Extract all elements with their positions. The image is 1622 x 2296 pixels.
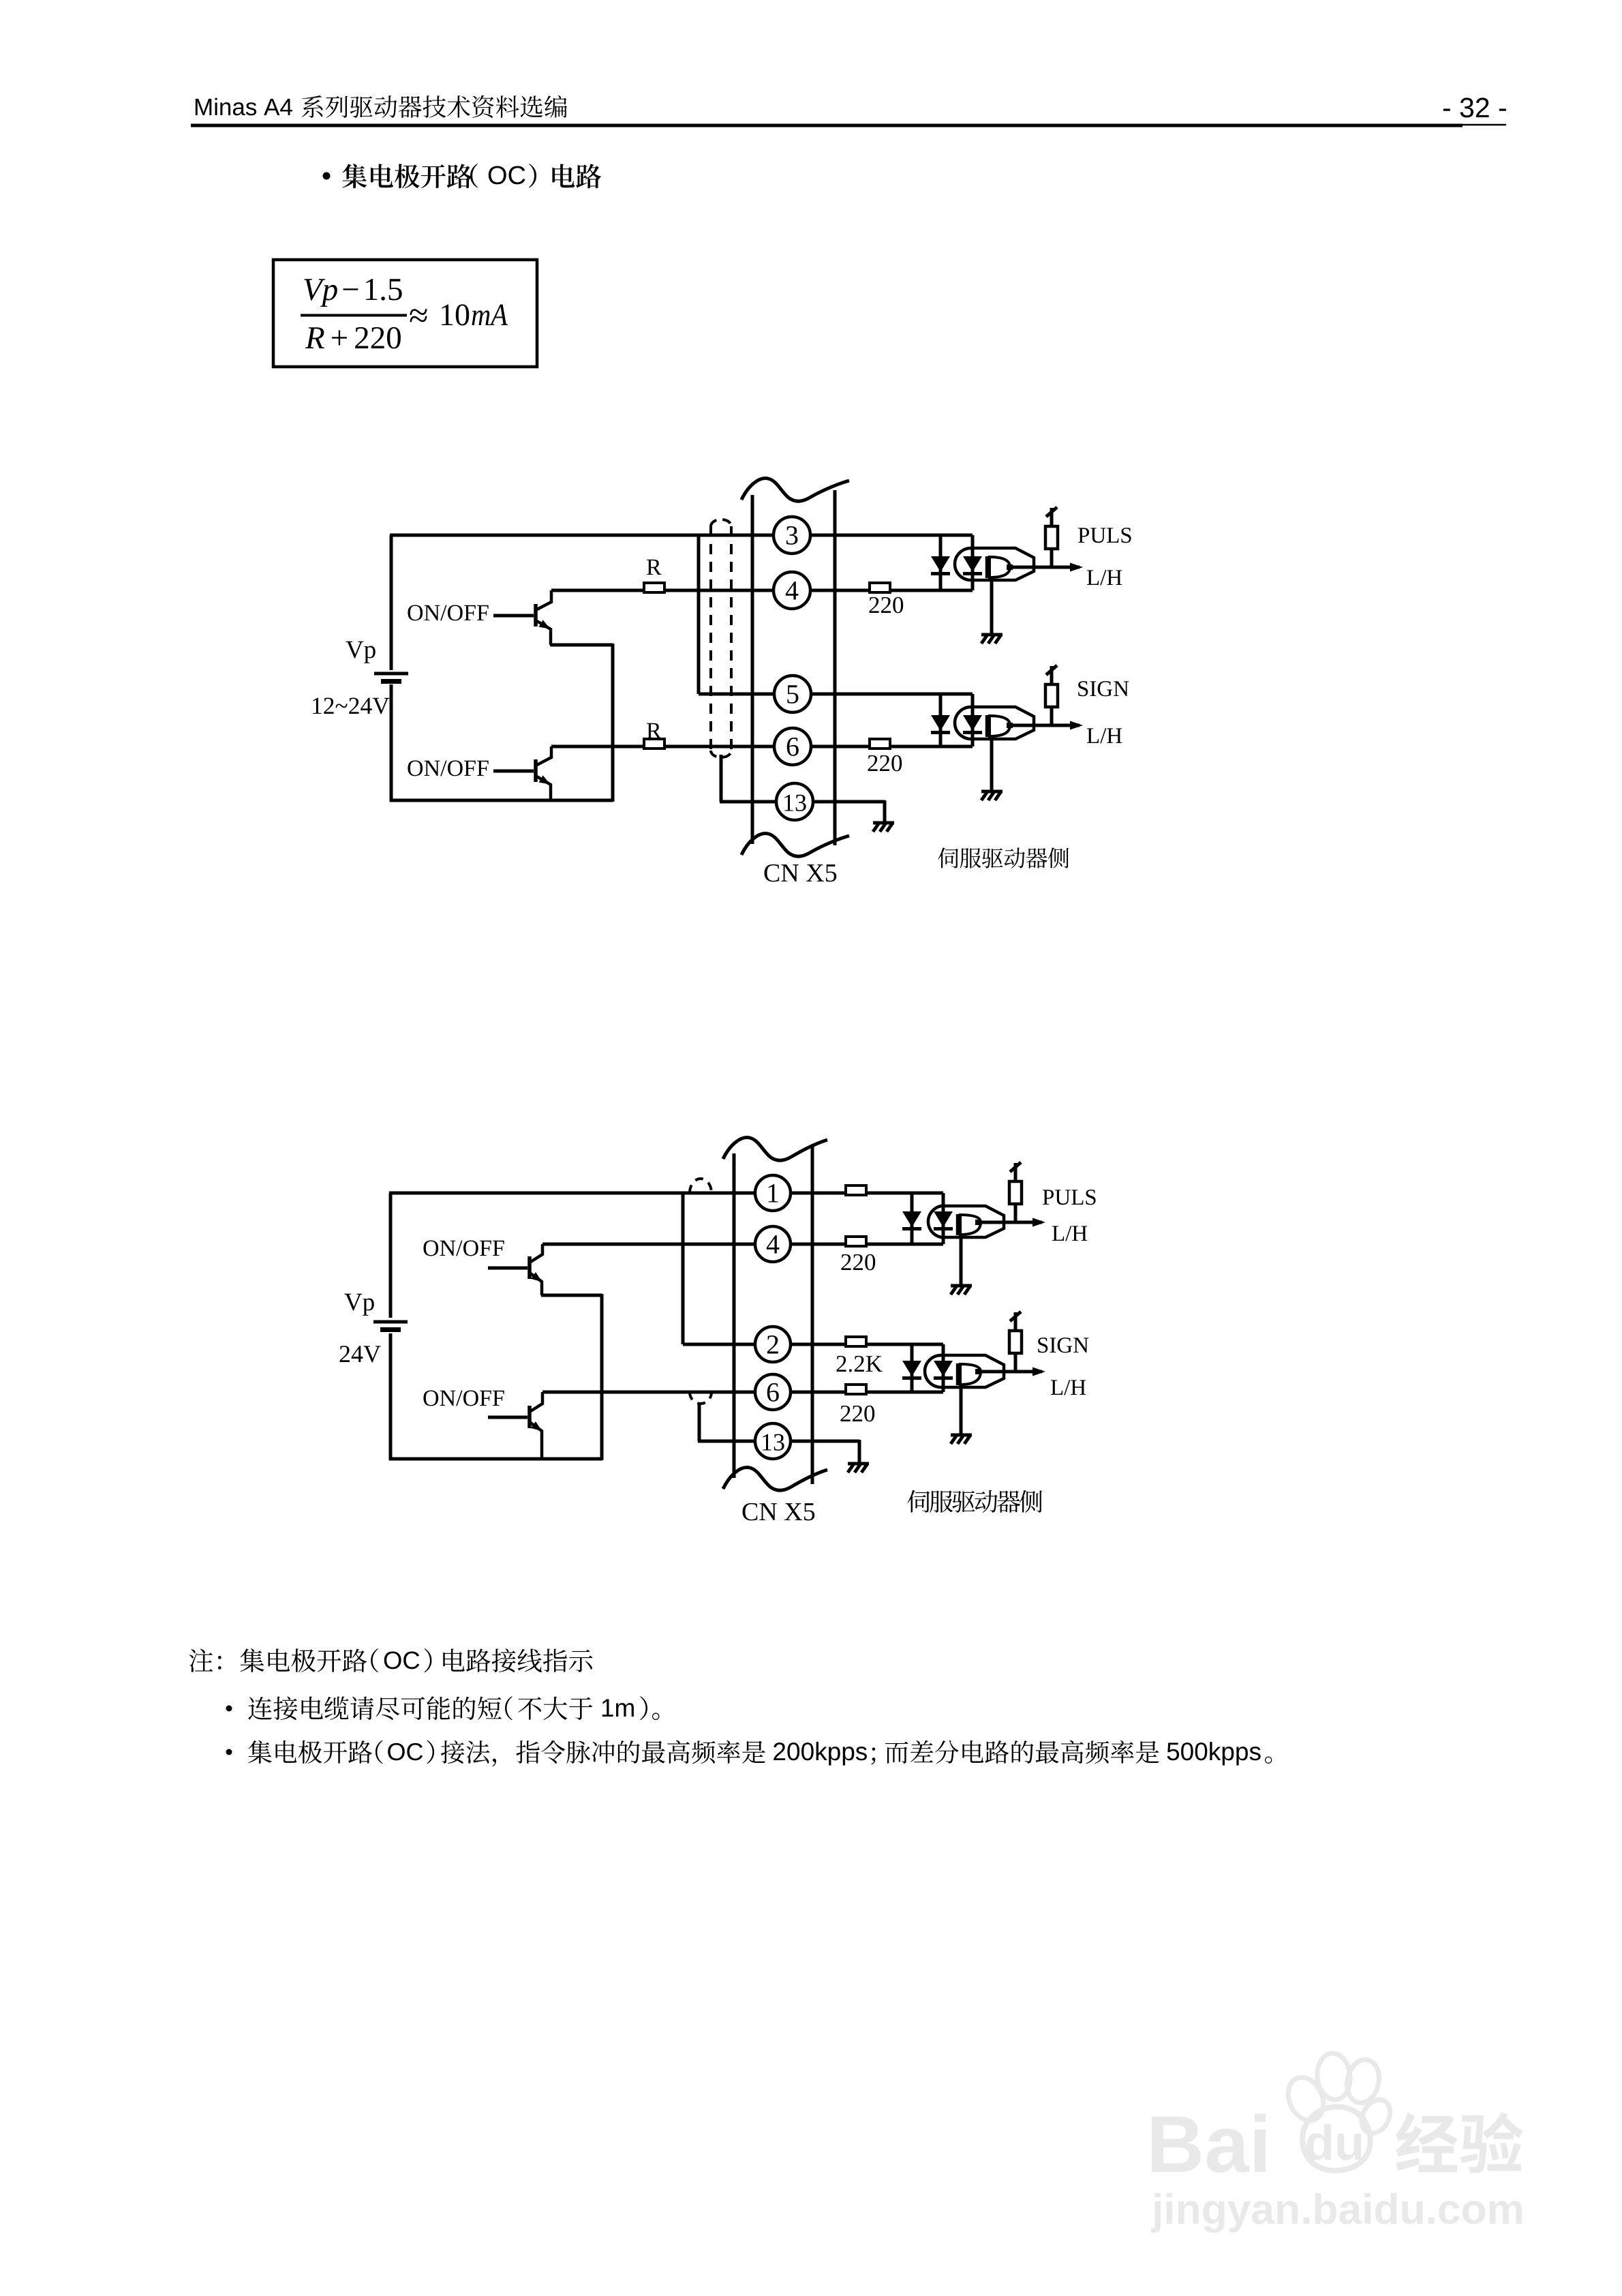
- formula box: [273, 260, 537, 367]
- note line3 OC: [388, 1743, 405, 1760]
- D2 pin 1: [755, 1175, 791, 1211]
- D2 label servo driver side: [907, 1490, 930, 1513]
- D1 label Vp: [346, 641, 363, 659]
- formula 10: [442, 305, 453, 325]
- D2 label L/H SIGN: [1051, 1380, 1062, 1395]
- note line1 cjk2: [443, 1648, 465, 1672]
- header rule: [191, 124, 1463, 127]
- D1 Q1 emitter run: [550, 644, 613, 647]
- D2 opto-coupler SIGN: [925, 1355, 1004, 1387]
- D2 opto LED SIGN: [942, 1344, 945, 1392]
- D1 label ON/OFF lower: [408, 760, 423, 776]
- D1 label R upper: [647, 560, 662, 575]
- D1 label L/H PULS: [1087, 570, 1099, 585]
- D2 base wire Q1: [488, 1267, 527, 1270]
- D2 battery Vp: [373, 1320, 408, 1324]
- D2 connector left edge: [733, 1153, 736, 1478]
- D1 emitter lead SIGN: [990, 737, 994, 791]
- D1 base wire Q2: [493, 770, 534, 773]
- page number underline: [1447, 124, 1506, 126]
- D1 label PULS: [1078, 528, 1089, 543]
- D1 resistor R lower: [644, 739, 664, 749]
- note line1 OC: [384, 1652, 401, 1670]
- section heading close paren: [529, 164, 536, 187]
- watermark jingyan cjk: [1396, 2113, 1458, 2172]
- note line3 200kpps: [774, 1742, 785, 1760]
- D2 pin 6: [755, 1374, 791, 1410]
- D1 label R lower: [647, 723, 662, 738]
- D2 pin13 ground: [848, 1462, 869, 1466]
- note line2 cjk1: [248, 1697, 272, 1720]
- D1 collector wire pin4: [551, 589, 973, 592]
- D1 transistor Q1: [534, 604, 538, 626]
- D2 collector wire pin6: [542, 1391, 943, 1394]
- D1 pull-up resistor PULS: [1050, 549, 1054, 567]
- note line2 bullet: [226, 1706, 232, 1712]
- D1 connector right edge: [833, 490, 837, 845]
- D1 resistor 220 SIGN: [870, 739, 890, 749]
- D1 pin 6: [774, 728, 811, 765]
- watermark Bai: [1152, 2117, 1201, 2172]
- D1 transistor Q2: [534, 759, 538, 782]
- D2 label SIGN: [1038, 1338, 1047, 1353]
- note line1 cjk1: [189, 1649, 213, 1672]
- note line3 semicolon: [871, 1748, 875, 1765]
- D1 wire pin5 to opto: [699, 693, 973, 696]
- D1 pin 13: [776, 783, 813, 820]
- D1 opto-coupler PULS: [955, 548, 1034, 580]
- note line3 period: [1265, 1757, 1272, 1764]
- D1 pin 4: [774, 572, 810, 609]
- D2 label ON/OFF lower: [423, 1390, 438, 1406]
- D2 shield drain wire: [698, 1402, 701, 1441]
- D1 shield cable capsule: [709, 526, 712, 751]
- formula fraction bar: [301, 314, 407, 317]
- D1 pin13 ground lead: [883, 800, 887, 821]
- D1 top rail wire pin3: [390, 534, 973, 537]
- D1 label 220 SIGN: [868, 755, 878, 771]
- section heading cjk2: [552, 164, 575, 187]
- D1 connector left edge: [751, 495, 754, 844]
- formula denominator 220: [355, 327, 368, 348]
- watermark du: [1306, 2124, 1331, 2160]
- D1 clamp diode SIGN: [939, 694, 943, 746]
- D2 clamp diode PULS: [911, 1193, 914, 1244]
- header title cjk: [302, 95, 323, 118]
- D2 opto output wire PULS: [981, 1221, 1042, 1224]
- D2 opto LED PULS: [942, 1193, 945, 1244]
- D1 clamp diode PULS: [939, 535, 943, 590]
- D1 left supply rail: [390, 535, 393, 670]
- D2 pin 2: [755, 1327, 791, 1362]
- formula numerator minus: [343, 288, 358, 290]
- note line1 close paren: [425, 1648, 432, 1672]
- formula denominator plus: [332, 330, 347, 345]
- formula mA: [472, 310, 489, 325]
- D1 resistor 220 PULS: [870, 583, 890, 592]
- D2 resistor 2.2K: [846, 1337, 866, 1346]
- D1 base wire Q1: [493, 614, 534, 618]
- D2 connector bottom break: [723, 1468, 827, 1491]
- note line2 period: [652, 1713, 660, 1721]
- D1 pin 3: [774, 517, 810, 554]
- D2 ground PULS: [951, 1284, 972, 1288]
- D2 output arrow SIGN: [1032, 1368, 1045, 1376]
- header title latin: [196, 99, 211, 115]
- D1 output arrow PULS: [1070, 563, 1083, 572]
- D2 shield capsule bottom arc: [690, 1392, 711, 1404]
- D1 resistor R upper: [644, 583, 664, 592]
- D2 connector top break: [723, 1138, 827, 1161]
- D1 bottom rail wire: [390, 799, 613, 802]
- D2 label 2.2K: [837, 1356, 846, 1372]
- note line3 open paren: [376, 1740, 383, 1764]
- D1 ground SIGN: [981, 790, 1003, 794]
- note line3 bullet: [226, 1749, 232, 1755]
- D2 resistor 220 SIGN: [846, 1385, 866, 1394]
- note line3 cjk2: [441, 1740, 464, 1764]
- D2 Q1 emitter run: [541, 1294, 602, 1297]
- D1 branch wire to pin5: [697, 534, 701, 694]
- note line3 close paren: [427, 1740, 435, 1764]
- D2 shield capsule top arc: [690, 1179, 711, 1193]
- formula numerator 1.5: [366, 279, 378, 300]
- note line3 cjk1: [248, 1740, 272, 1764]
- D1 opto output wire PULS: [1013, 566, 1080, 569]
- D1 label ON/OFF upper: [408, 605, 423, 620]
- D2 bottom rail wire: [389, 1457, 602, 1461]
- D2 base wire Q2: [488, 1416, 527, 1419]
- formula approx sign: [410, 309, 427, 322]
- D1 opto LED PULS: [971, 535, 975, 590]
- D2 label PULS: [1043, 1190, 1054, 1205]
- formula numerator Vp: [304, 279, 325, 300]
- D1 shield drain wire: [720, 755, 723, 802]
- D1 label 220 PULS: [870, 597, 879, 613]
- D2 label 220 SIGN: [841, 1406, 851, 1421]
- D2 emitter lead PULS: [960, 1235, 963, 1284]
- D1 collector wire pin6: [551, 745, 973, 749]
- note line3 500kpps: [1167, 1743, 1180, 1761]
- D1 label CN X5: [765, 864, 780, 882]
- D1 label SIGN: [1078, 681, 1088, 696]
- section heading open paren: [470, 164, 478, 187]
- D2 pull-up resistor PULS: [1014, 1204, 1017, 1222]
- D1 pin13 ground: [873, 821, 894, 825]
- section heading OC: [489, 166, 506, 184]
- D1 connector bottom break: [741, 834, 849, 857]
- D1 label servo driver side: [938, 847, 958, 868]
- note line2 1m: [602, 1700, 613, 1717]
- note line3 cjk3: [885, 1742, 908, 1764]
- D2 resistor 220 PULS: [846, 1237, 866, 1246]
- D1 label L/H SIGN: [1087, 728, 1099, 743]
- watermark url: [1151, 2193, 1161, 2233]
- D1 pin 5: [774, 676, 811, 712]
- D2 label ON/OFF upper: [423, 1240, 438, 1256]
- D2 branch wire to pin2: [682, 1192, 685, 1344]
- D2 transistor Q1: [527, 1256, 532, 1279]
- D2 connector right edge: [811, 1147, 814, 1484]
- D2 opto output wire SIGN: [981, 1370, 1042, 1374]
- D2 transistor Q2: [527, 1406, 532, 1428]
- D2 label 220 PULS: [842, 1254, 851, 1270]
- D2 label 24V: [340, 1346, 350, 1362]
- D1 opto LED SIGN: [971, 694, 975, 746]
- section heading cjk1: [342, 164, 367, 188]
- D2 label Vp: [344, 1294, 362, 1311]
- D2 pin13 ground lead: [858, 1440, 861, 1462]
- D1 battery Vp: [374, 672, 408, 676]
- note line2 open paren: [505, 1696, 512, 1720]
- D1 label 12~24V: [313, 698, 321, 714]
- note line1 open paren: [371, 1648, 378, 1672]
- D1 output arrow SIGN: [1070, 721, 1083, 730]
- D2 clamp diode SIGN: [911, 1344, 914, 1392]
- D1 opto output wire SIGN: [1013, 724, 1080, 727]
- note line2 cjk2: [518, 1697, 541, 1719]
- D2 pin 13: [755, 1423, 791, 1459]
- D1 emitter lead PULS: [990, 578, 994, 635]
- D2 pull-up resistor SIGN: [1014, 1353, 1017, 1372]
- D2 wire pin2: [683, 1343, 943, 1346]
- D2 output arrow PULS: [1032, 1218, 1045, 1227]
- D2 opto-coupler PULS: [928, 1206, 1004, 1237]
- formula denominator R: [305, 327, 324, 348]
- D1 opto-coupler SIGN: [955, 707, 1034, 739]
- D2 resistor pin1: [846, 1185, 866, 1195]
- D1 connector top break: [741, 479, 849, 502]
- D1 pull-up resistor SIGN: [1050, 707, 1054, 725]
- page number: [1443, 109, 1450, 111]
- note line2 close paren: [640, 1696, 647, 1720]
- D2 pin 4: [755, 1226, 791, 1262]
- D2 label CN X5: [743, 1503, 758, 1521]
- D2 emitter lead SIGN: [960, 1384, 963, 1434]
- D2 label L/H PULS: [1052, 1226, 1064, 1241]
- D1 ground PULS: [981, 633, 1003, 637]
- D2 ground SIGN: [951, 1434, 972, 1437]
- D2 collector wire pin4: [542, 1243, 943, 1246]
- D2 top rail wire pin1: [389, 1192, 943, 1195]
- section bullet: [323, 172, 331, 180]
- watermark paw: [1282, 2072, 1330, 2126]
- D2 left supply rail: [389, 1193, 393, 1318]
